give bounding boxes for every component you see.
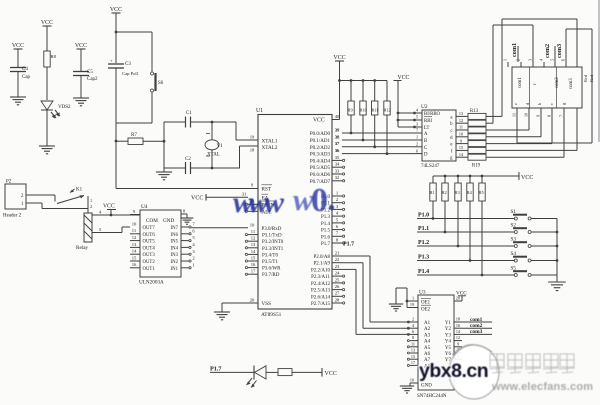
svg-text:U3: U3 xyxy=(419,290,426,296)
svg-text:S6: S6 xyxy=(158,81,164,86)
svg-text:com3: com3 xyxy=(470,329,483,335)
svg-text:g: g xyxy=(561,102,566,105)
svg-text:B: B xyxy=(424,139,427,144)
svg-text:d: d xyxy=(450,136,453,141)
svg-text:OE1: OE1 xyxy=(421,301,431,306)
svg-text:Y1: Y1 xyxy=(217,144,224,149)
svg-text:4: 4 xyxy=(416,108,419,113)
svg-text:P2.6/A14: P2.6/A14 xyxy=(311,295,331,300)
svg-text:C3: C3 xyxy=(125,62,131,67)
svg-text:R5: R5 xyxy=(479,190,484,195)
svg-text:18: 18 xyxy=(250,148,255,153)
svg-text:A: A xyxy=(424,132,428,137)
svg-text:P1.4: P1.4 xyxy=(418,269,429,275)
svg-text:R10: R10 xyxy=(360,108,367,113)
svg-text:www: www xyxy=(233,186,285,219)
svg-text:Cap: Cap xyxy=(22,75,31,80)
svg-text:2: 2 xyxy=(412,317,414,322)
svg-text:P3.0/RxD: P3.0/RxD xyxy=(262,227,282,232)
svg-text:OUT6: OUT6 xyxy=(143,233,156,238)
svg-text:P1.4: P1.4 xyxy=(321,222,331,227)
svg-text:P3.2/INT0: P3.2/INT0 xyxy=(262,240,284,245)
svg-text:14: 14 xyxy=(456,329,461,334)
svg-text:ULN2003A: ULN2003A xyxy=(139,280,164,286)
svg-text:2: 2 xyxy=(336,197,339,202)
svg-text:A6: A6 xyxy=(424,352,431,357)
svg-text:e: e xyxy=(450,143,452,148)
svg-text:P3.7/RD: P3.7/RD xyxy=(262,273,280,278)
svg-text:9: 9 xyxy=(460,138,462,143)
svg-text:A4: A4 xyxy=(424,340,431,345)
svg-text:OUT2: OUT2 xyxy=(143,260,156,265)
svg-text:3: 3 xyxy=(416,122,418,127)
svg-text:P0.4/AD4: P0.4/AD4 xyxy=(310,159,331,164)
svg-text:C: C xyxy=(424,146,427,151)
svg-text:Cap2: Cap2 xyxy=(87,77,98,82)
svg-text:11: 11 xyxy=(132,228,137,233)
svg-text:9: 9 xyxy=(536,115,541,117)
svg-text:6: 6 xyxy=(412,329,414,334)
svg-text:P2.5/A13: P2.5/A13 xyxy=(311,289,331,294)
svg-text:P3.1/TxD: P3.1/TxD xyxy=(262,234,282,239)
svg-text:VCC: VCC xyxy=(103,204,115,210)
svg-text:17: 17 xyxy=(411,360,415,365)
svg-text:VCC: VCC xyxy=(110,7,122,13)
svg-text:R3: R3 xyxy=(455,190,460,195)
svg-text:BI/RBO: BI/RBO xyxy=(424,112,441,117)
svg-text:1: 1 xyxy=(336,190,339,195)
svg-text:C1: C1 xyxy=(186,111,192,116)
svg-text:7: 7 xyxy=(192,222,195,227)
svg-text:SN74HC244N: SN74HC244N xyxy=(417,394,447,399)
svg-text:5: 5 xyxy=(192,235,195,240)
svg-text:6: 6 xyxy=(561,59,566,61)
svg-text:P2.2/A10: P2.2/A10 xyxy=(311,268,331,273)
svg-text:AT89S51: AT89S51 xyxy=(261,312,282,318)
svg-text:10: 10 xyxy=(132,221,137,226)
svg-text:8: 8 xyxy=(183,208,186,213)
svg-text:VCC: VCC xyxy=(521,175,533,181)
svg-text:VCC: VCC xyxy=(191,196,203,202)
svg-text:P0.5/AD5: P0.5/AD5 xyxy=(310,166,331,171)
svg-text:Y1: Y1 xyxy=(445,321,452,326)
svg-text:15: 15 xyxy=(132,255,137,260)
svg-text:OE2: OE2 xyxy=(421,308,431,313)
svg-text:R11: R11 xyxy=(372,108,379,113)
svg-text:P0.3/AD3: P0.3/AD3 xyxy=(310,153,331,158)
svg-text:4: 4 xyxy=(336,211,339,216)
svg-text:e: e xyxy=(513,103,518,105)
svg-text:19: 19 xyxy=(250,134,255,139)
svg-text:P2.1/A9: P2.1/A9 xyxy=(313,262,330,267)
svg-text:P2.4/A12: P2.4/A12 xyxy=(311,282,331,287)
svg-text:C2: C2 xyxy=(185,157,191,162)
svg-text:P2.3/A11: P2.3/A11 xyxy=(311,275,330,280)
svg-text:S4: S4 xyxy=(511,251,517,257)
svg-text:GND: GND xyxy=(163,218,174,224)
svg-text:7: 7 xyxy=(416,128,418,133)
svg-text:com2: com2 xyxy=(555,77,560,88)
svg-text:A5: A5 xyxy=(424,346,431,351)
svg-text:1: 1 xyxy=(503,59,508,61)
svg-text:5: 5 xyxy=(550,59,555,61)
svg-text:17: 17 xyxy=(251,269,256,274)
svg-text:C5: C5 xyxy=(87,70,93,75)
svg-text:Y5: Y5 xyxy=(445,346,452,351)
svg-text:34: 34 xyxy=(335,162,340,167)
svg-text:VCC: VCC xyxy=(75,43,87,49)
svg-text:LT: LT xyxy=(424,126,429,131)
svg-text:+: + xyxy=(110,58,113,63)
svg-text:RBI: RBI xyxy=(424,119,432,124)
svg-text:1: 1 xyxy=(21,202,24,207)
svg-text:P0.1/AD1: P0.1/AD1 xyxy=(310,139,331,144)
svg-text:P0.0/AD0: P0.0/AD0 xyxy=(310,132,331,137)
svg-text:3: 3 xyxy=(528,59,533,61)
svg-text:D: D xyxy=(424,153,428,158)
svg-text:OUT1: OUT1 xyxy=(143,267,156,272)
svg-text:S5: S5 xyxy=(511,266,517,272)
svg-text:13: 13 xyxy=(459,111,463,116)
svg-text:R4: R4 xyxy=(467,190,473,195)
svg-text:S1: S1 xyxy=(511,209,517,215)
svg-text:0: 0 xyxy=(311,182,328,219)
svg-text:IN6: IN6 xyxy=(171,233,179,238)
svg-text:P0.6/AD6: P0.6/AD6 xyxy=(310,173,331,178)
svg-text:P3.5/T1: P3.5/T1 xyxy=(262,260,278,265)
svg-text:Y2: Y2 xyxy=(445,327,452,332)
svg-text:Y6: Y6 xyxy=(445,352,452,357)
svg-text:11: 11 xyxy=(251,229,256,234)
svg-text:R12: R12 xyxy=(384,108,391,113)
svg-text:26: 26 xyxy=(335,284,340,289)
svg-text:16: 16 xyxy=(251,262,256,267)
svg-text:P1.7: P1.7 xyxy=(210,366,222,373)
svg-text:A1: A1 xyxy=(424,321,431,326)
svg-text:9: 9 xyxy=(457,341,459,346)
svg-text:R8: R8 xyxy=(51,54,57,59)
svg-text:P2.7/A15: P2.7/A15 xyxy=(311,302,331,307)
svg-text:b: b xyxy=(537,102,542,105)
svg-text:13: 13 xyxy=(132,242,137,247)
svg-text:13: 13 xyxy=(251,242,256,247)
svg-text:5: 5 xyxy=(416,115,418,120)
svg-text:21: 21 xyxy=(335,250,340,255)
svg-text:74LS247: 74LS247 xyxy=(421,164,440,169)
svg-text:32: 32 xyxy=(335,175,340,180)
svg-text:f: f xyxy=(532,83,537,85)
svg-text:8: 8 xyxy=(412,335,414,340)
svg-text:VCC: VCC xyxy=(41,20,53,26)
svg-text:4: 4 xyxy=(539,58,544,61)
svg-text:6: 6 xyxy=(416,148,418,153)
svg-text:11: 11 xyxy=(459,125,463,130)
svg-text:18: 18 xyxy=(456,317,460,322)
svg-text:1: 1 xyxy=(416,135,418,140)
svg-text:14: 14 xyxy=(251,249,256,254)
svg-text:com1: com1 xyxy=(511,43,518,57)
svg-text:U2: U2 xyxy=(421,104,428,110)
svg-text:IN3: IN3 xyxy=(171,253,179,258)
svg-text:3: 3 xyxy=(192,249,195,254)
svg-text:VCC: VCC xyxy=(325,371,337,377)
svg-text:7: 7 xyxy=(336,231,339,236)
svg-text:OUT3: OUT3 xyxy=(143,253,156,258)
svg-text:11: 11 xyxy=(512,113,517,117)
svg-text:19: 19 xyxy=(410,302,414,307)
svg-text:com2: com2 xyxy=(544,44,551,58)
svg-text:36: 36 xyxy=(335,148,340,153)
svg-text:VCC: VCC xyxy=(313,118,325,124)
svg-text:14: 14 xyxy=(132,249,137,254)
svg-text:com3: com3 xyxy=(569,78,574,89)
svg-text:2: 2 xyxy=(416,142,418,147)
svg-text:OUT4: OUT4 xyxy=(143,246,156,251)
svg-text:P3.4/T0: P3.4/T0 xyxy=(262,253,278,258)
svg-text:22: 22 xyxy=(335,257,340,262)
svg-text:8: 8 xyxy=(336,237,339,242)
svg-text:g: g xyxy=(450,156,453,161)
svg-text:28: 28 xyxy=(335,297,340,302)
svg-text:U1: U1 xyxy=(256,108,263,114)
svg-text:33: 33 xyxy=(335,168,340,173)
svg-text:IN2: IN2 xyxy=(171,260,179,265)
svg-text:P0.2/AD2: P0.2/AD2 xyxy=(310,146,331,151)
svg-text:Red: Red xyxy=(589,74,594,82)
svg-text:12: 12 xyxy=(456,335,460,340)
svg-text:XTAL: XTAL xyxy=(207,153,220,158)
svg-text:IN1: IN1 xyxy=(171,267,179,272)
svg-text:a: a xyxy=(450,115,453,120)
svg-text:VDS2: VDS2 xyxy=(58,105,71,110)
svg-text:15: 15 xyxy=(459,145,463,150)
svg-text:U4: U4 xyxy=(141,204,148,210)
svg-text:R2: R2 xyxy=(442,190,447,195)
svg-text:Header 2: Header 2 xyxy=(3,214,22,219)
svg-text:b: b xyxy=(450,122,453,127)
svg-text:IN7: IN7 xyxy=(171,226,179,231)
svg-text:ybx8.cn: ybx8.cn xyxy=(419,360,488,382)
svg-text:OUT5: OUT5 xyxy=(143,240,156,245)
svg-text:IN4: IN4 xyxy=(171,246,179,251)
svg-text:GND: GND xyxy=(421,384,432,389)
svg-text:11: 11 xyxy=(411,341,415,346)
svg-text:P2.0/A8: P2.0/A8 xyxy=(313,255,330,260)
svg-text:5: 5 xyxy=(336,217,339,222)
svg-text:P1.6: P1.6 xyxy=(321,235,331,240)
svg-text:3: 3 xyxy=(336,204,339,209)
svg-text:15: 15 xyxy=(251,255,256,260)
svg-text:38: 38 xyxy=(335,134,340,139)
svg-text:P1.2: P1.2 xyxy=(418,240,429,246)
svg-text:XTAL2: XTAL2 xyxy=(262,145,278,151)
svg-text:C4: C4 xyxy=(22,67,28,72)
svg-text:VCC: VCC xyxy=(333,55,345,61)
svg-text:R9: R9 xyxy=(348,108,353,113)
svg-text:10: 10 xyxy=(410,377,414,382)
svg-text:VSS: VSS xyxy=(262,301,272,307)
svg-text:R13: R13 xyxy=(470,109,479,114)
svg-text:P1.1: P1.1 xyxy=(418,226,429,232)
svg-text:4: 4 xyxy=(192,242,195,247)
svg-text:8: 8 xyxy=(547,115,552,117)
svg-text:16: 16 xyxy=(456,323,460,328)
svg-text:4: 4 xyxy=(412,323,415,328)
svg-text:com2: com2 xyxy=(470,323,483,329)
svg-text:10: 10 xyxy=(459,132,463,137)
svg-text:P1.7: P1.7 xyxy=(321,242,331,247)
svg-text:S3: S3 xyxy=(511,237,517,243)
svg-text:R7: R7 xyxy=(131,133,137,138)
svg-text:OUT7: OUT7 xyxy=(143,226,156,231)
svg-text:23: 23 xyxy=(335,264,340,269)
svg-text:12: 12 xyxy=(132,235,137,240)
svg-text:c: c xyxy=(450,129,452,134)
svg-text:VCC: VCC xyxy=(12,43,24,49)
svg-text:35: 35 xyxy=(335,155,340,160)
svg-text:Cap Pol1: Cap Pol1 xyxy=(122,71,140,76)
svg-text:A3: A3 xyxy=(424,333,431,338)
svg-text:R1: R1 xyxy=(430,190,435,195)
svg-text:20: 20 xyxy=(250,297,255,302)
svg-text:1: 1 xyxy=(412,295,414,300)
svg-text:39: 39 xyxy=(335,127,340,132)
svg-text:IN5: IN5 xyxy=(171,240,179,245)
svg-text:16: 16 xyxy=(132,262,137,267)
svg-text:13: 13 xyxy=(411,348,415,353)
svg-text:c: c xyxy=(549,103,554,105)
svg-text:10: 10 xyxy=(250,222,255,227)
svg-text:com1: com1 xyxy=(470,317,483,323)
svg-text:COM: COM xyxy=(146,218,158,224)
svg-text:XTAL1: XTAL1 xyxy=(262,139,278,145)
svg-text:9: 9 xyxy=(133,209,136,214)
svg-text:Y3: Y3 xyxy=(445,333,452,338)
svg-text:12: 12 xyxy=(251,236,256,241)
svg-text:Relay: Relay xyxy=(76,245,89,251)
svg-text:6: 6 xyxy=(336,224,339,229)
svg-text:com3: com3 xyxy=(556,44,563,58)
svg-text:25: 25 xyxy=(335,277,340,282)
svg-text:2: 2 xyxy=(192,256,195,261)
svg-text:14: 14 xyxy=(459,152,464,157)
svg-text:K1: K1 xyxy=(76,188,83,193)
svg-text:1: 1 xyxy=(192,262,195,267)
svg-text:S2: S2 xyxy=(511,223,517,229)
svg-text:P1.3: P1.3 xyxy=(418,254,429,260)
svg-text:37: 37 xyxy=(335,141,340,146)
svg-text:24: 24 xyxy=(335,271,340,276)
svg-text:4: 4 xyxy=(99,209,102,214)
svg-text:P2: P2 xyxy=(6,180,12,185)
svg-text:P1.5: P1.5 xyxy=(321,229,331,234)
svg-text:Red: Red xyxy=(583,74,588,82)
svg-text:2: 2 xyxy=(90,204,92,209)
svg-text:P1.7: P1.7 xyxy=(343,242,354,248)
svg-text:5: 5 xyxy=(99,227,102,232)
svg-text:2: 2 xyxy=(21,194,24,199)
svg-text:com1: com1 xyxy=(518,77,523,88)
svg-text:27: 27 xyxy=(335,291,340,296)
svg-text:10: 10 xyxy=(524,113,529,117)
svg-text:R19: R19 xyxy=(472,164,481,169)
svg-text:www.elecfans.com: www.elecfans.com xyxy=(491,381,593,393)
svg-text:15: 15 xyxy=(411,354,415,359)
svg-text:7: 7 xyxy=(559,115,564,117)
svg-text:Y4: Y4 xyxy=(445,340,452,345)
svg-text:P3.6/WR: P3.6/WR xyxy=(262,267,281,272)
svg-text:P3.3/INT1: P3.3/INT1 xyxy=(262,247,284,252)
svg-text:12: 12 xyxy=(459,118,463,123)
svg-text:1: 1 xyxy=(90,198,92,203)
svg-text:6: 6 xyxy=(192,228,195,233)
svg-text:P1.0: P1.0 xyxy=(418,212,429,218)
svg-text:f: f xyxy=(451,149,453,154)
svg-text:A2: A2 xyxy=(424,327,431,332)
